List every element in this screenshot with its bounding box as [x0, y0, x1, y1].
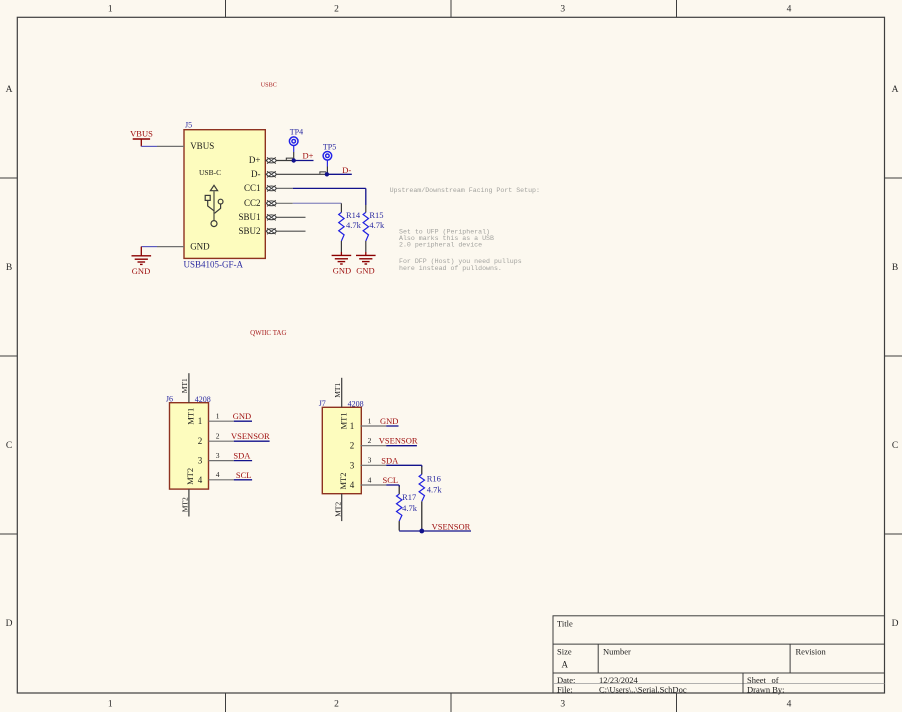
connector J7: [319, 378, 364, 521]
wire VSENSOR bottom: [399, 530, 471, 532]
J6 pin 2: [198, 432, 234, 447]
svg-text:C:\Users\..\Serial.SchDoc: C:\Users\..\Serial.SchDoc: [599, 685, 687, 695]
svg-text:Sheet: Sheet: [747, 675, 767, 685]
svg-text:USB4105-GF-A: USB4105-GF-A: [184, 259, 244, 269]
svg-text:here instead of pulldowns.: here instead of pulldowns.: [399, 265, 502, 272]
svg-text:CC2: CC2: [244, 198, 261, 208]
svg-text:QWIIC TAG: QWIIC TAG: [250, 329, 286, 337]
svg-text:3: 3: [560, 700, 565, 710]
svg-text:4.7k: 4.7k: [346, 220, 362, 230]
wire D-: [327, 173, 352, 175]
net label GND (J6): [233, 411, 251, 421]
svg-text:GND: GND: [380, 416, 398, 426]
svg-text:SDA: SDA: [233, 451, 251, 461]
test point TP4: [289, 127, 303, 160]
connector J6: [166, 373, 211, 516]
svg-text:2.0 peripheral device: 2.0 peripheral device: [399, 242, 482, 249]
net label SCL (J7): [383, 475, 399, 485]
svg-text:2: 2: [350, 441, 355, 451]
svg-text:4208: 4208: [195, 395, 211, 404]
svg-text:3: 3: [368, 456, 372, 465]
svg-text:Upstream/Downstream Facing Por: Upstream/Downstream Facing Port Setup:: [390, 187, 540, 194]
svg-text:SDA: SDA: [381, 455, 399, 465]
resistor R17: [397, 494, 402, 521]
ground GND under R14: [332, 252, 352, 276]
wire SDA to R16: [421, 465, 423, 474]
svg-text:CC1: CC1: [244, 183, 261, 193]
net label SCL (J6): [236, 470, 252, 480]
svg-text:of: of: [772, 675, 779, 685]
wire J7 pin 4: [386, 484, 399, 486]
svg-text:MT1: MT1: [180, 378, 189, 393]
svg-text:VBUS: VBUS: [130, 129, 153, 139]
test point TP5: [323, 142, 336, 174]
svg-text:4: 4: [216, 470, 220, 479]
J5 pin SBU2: [238, 226, 305, 236]
power port VBUS: [130, 129, 153, 147]
svg-text:VBUS: VBUS: [190, 141, 214, 151]
svg-text:R15: R15: [369, 210, 383, 220]
resistor R14: [339, 212, 344, 252]
J7 pin 4: [350, 475, 386, 490]
J7 pin 3: [350, 456, 386, 471]
svg-text:GND: GND: [356, 266, 374, 276]
svg-text:MT1: MT1: [338, 412, 348, 429]
wire VBUS: [141, 145, 157, 147]
svg-text:J7: J7: [319, 399, 326, 408]
J6 pin 1: [198, 412, 234, 427]
svg-text:Date:: Date:: [557, 675, 575, 685]
svg-text:D+: D+: [249, 155, 261, 165]
wire J6 pin 3: [234, 460, 252, 462]
title block: [553, 616, 885, 695]
net label D-: [342, 165, 351, 175]
J5 pin D+: [249, 155, 294, 165]
USB icon inside J5: [205, 185, 223, 226]
wire J6 pin 2: [234, 440, 270, 442]
wire J7 pin 3: [386, 464, 422, 466]
svg-text:B: B: [6, 263, 12, 273]
svg-text:2: 2: [368, 436, 372, 445]
svg-text:4: 4: [368, 475, 372, 484]
net label SDA (J7): [381, 455, 399, 465]
svg-text:3: 3: [216, 451, 220, 460]
J6 pin 3: [198, 451, 234, 466]
wire J7 pin 1: [386, 425, 398, 427]
svg-text:4208: 4208: [348, 399, 364, 408]
svg-text:Title: Title: [557, 619, 573, 629]
net label GND (J7): [380, 416, 398, 426]
svg-text:Size: Size: [557, 647, 572, 657]
svg-text:4.7k: 4.7k: [402, 503, 418, 513]
net label VSENSOR (J7): [379, 436, 418, 446]
wire J7 pin 2: [386, 445, 417, 447]
wire R17 to VSENSOR: [398, 521, 400, 530]
svg-text:4: 4: [787, 700, 792, 710]
svg-text:USBC: USBC: [261, 82, 277, 89]
svg-text:C: C: [6, 441, 12, 451]
svg-text:4: 4: [198, 475, 203, 485]
svg-text:MT2: MT2: [185, 468, 195, 485]
svg-text:GND: GND: [190, 241, 210, 251]
svg-text:A: A: [6, 85, 13, 95]
svg-text:D-: D-: [342, 165, 351, 175]
svg-text:MT2: MT2: [338, 473, 348, 490]
ground GND left of J5: [132, 247, 158, 276]
svg-text:SCL: SCL: [236, 470, 252, 480]
svg-text:A: A: [892, 85, 899, 95]
svg-text:D-: D-: [251, 169, 261, 179]
svg-text:Number: Number: [603, 647, 631, 657]
wire J6 pin 4: [234, 479, 252, 481]
svg-text:1: 1: [108, 5, 113, 15]
wire J6 pin 1: [234, 420, 252, 422]
svg-text:2: 2: [334, 5, 339, 15]
connector J5: [184, 120, 266, 269]
J5 pin VBUS: [157, 145, 184, 147]
svg-text:4.7k: 4.7k: [427, 485, 443, 495]
svg-text:SCL: SCL: [383, 475, 399, 485]
no-ERC marker D+: [286, 158, 293, 160]
svg-text:R14: R14: [346, 210, 361, 220]
svg-text:1: 1: [368, 416, 372, 425]
wire D+: [294, 160, 314, 162]
J7 pin 1: [350, 416, 386, 431]
svg-text:MT2: MT2: [181, 497, 190, 512]
svg-text:4: 4: [350, 480, 355, 490]
svg-text:SBU1: SBU1: [238, 212, 260, 222]
svg-text:MT2: MT2: [333, 502, 342, 517]
J7 pin 2: [350, 436, 386, 451]
wire SCL to R17: [398, 485, 400, 494]
J5 pin GND: [157, 246, 184, 248]
svg-text:J5: J5: [185, 120, 192, 129]
label R17 4.7k: [402, 492, 418, 513]
J5 pin CC1: [244, 183, 293, 193]
svg-text:3: 3: [350, 460, 355, 470]
svg-text:SBU2: SBU2: [238, 226, 260, 236]
svg-text:1: 1: [216, 412, 220, 421]
J5 pin D-: [251, 169, 327, 179]
svg-text:B: B: [892, 263, 898, 273]
svg-text:File:: File:: [557, 685, 573, 695]
svg-text:Drawn By:: Drawn By:: [747, 685, 785, 695]
svg-text:GND: GND: [233, 411, 251, 421]
net label VSENSOR (pullups): [432, 521, 471, 531]
net label VSENSOR (J6): [231, 431, 270, 441]
svg-text:1: 1: [108, 700, 113, 710]
J6 pin 4: [198, 470, 234, 485]
svg-text:1: 1: [198, 416, 203, 426]
label R14 4.7k: [346, 210, 362, 230]
svg-text:USB-C: USB-C: [199, 168, 221, 177]
J5 pin CC2: [244, 198, 293, 208]
svg-text:C: C: [892, 441, 898, 451]
svg-text:3: 3: [198, 456, 203, 466]
wire R16 to VSENSOR: [421, 501, 423, 531]
svg-text:Revision: Revision: [796, 647, 827, 657]
note upstream/downstream port setup: [390, 187, 540, 272]
svg-text:VSENSOR: VSENSOR: [379, 436, 418, 446]
svg-text:12/23/2024: 12/23/2024: [599, 675, 638, 685]
svg-text:VSENSOR: VSENSOR: [231, 431, 270, 441]
svg-text:J6: J6: [166, 395, 173, 404]
junction VSENSOR: [419, 529, 424, 534]
svg-text:MT1: MT1: [186, 408, 196, 425]
junction D-: [325, 172, 329, 176]
svg-text:VSENSOR: VSENSOR: [432, 521, 471, 531]
svg-text:3: 3: [560, 5, 565, 15]
svg-text:2: 2: [216, 432, 220, 441]
svg-text:4: 4: [787, 5, 792, 15]
svg-text:A: A: [562, 660, 569, 670]
ground GND under R15: [356, 252, 376, 276]
svg-text:R16: R16: [427, 474, 441, 484]
svg-text:D: D: [6, 619, 13, 629]
J5 pin SBU1: [238, 212, 305, 222]
net label SDA (J6): [233, 451, 251, 461]
svg-text:TP5: TP5: [323, 142, 336, 151]
svg-text:2: 2: [334, 700, 339, 710]
label R16 4.7k: [427, 474, 443, 495]
svg-text:GND: GND: [333, 266, 351, 276]
wire CC1: [293, 188, 366, 212]
svg-text:D+: D+: [303, 150, 314, 160]
svg-text:1: 1: [350, 421, 355, 431]
svg-text:MT1: MT1: [333, 383, 342, 398]
net label D+: [303, 150, 314, 160]
svg-text:GND: GND: [132, 266, 150, 276]
no-ERC marker D-: [320, 172, 326, 174]
svg-text:4.7k: 4.7k: [369, 220, 385, 230]
junction D+: [292, 158, 296, 162]
svg-text:TP4: TP4: [290, 127, 303, 136]
resistor R15: [363, 212, 368, 252]
label R15 4.7k: [369, 210, 385, 230]
svg-text:R17: R17: [402, 492, 416, 502]
wire CC2: [293, 203, 342, 212]
resistor R16: [419, 474, 424, 501]
svg-text:2: 2: [198, 436, 203, 446]
svg-text:D: D: [892, 619, 899, 629]
